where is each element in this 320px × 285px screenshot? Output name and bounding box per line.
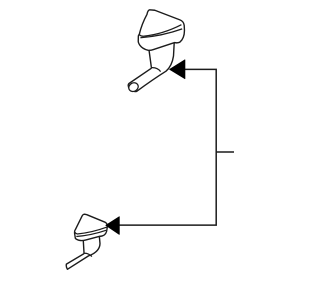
wire: bracket from top arrow, down right side, to bottom arrow: [119, 69, 216, 225]
part 2 cap face bottom edge: [75, 227, 107, 234]
part 2 tube bend seam: [84, 253, 92, 256]
part 1 cap face bottom edge: [140, 25, 182, 37]
part 2 (bottom nozzle) neck and bent tube: [66, 236, 100, 269]
part 2 cap rim bevel line: [76, 230, 106, 236]
part 1 tube bend seam: [152, 68, 161, 72]
part 1 cap rim bevel line: [140, 29, 182, 38]
part 1 tube end opening: [127, 81, 140, 93]
part 1 (top nozzle) neck and bent tube: [128, 41, 174, 92]
part 1 cap (triangular knob): [138, 10, 184, 50]
arrow to part 1: [170, 60, 185, 79]
wire: middle tick on bracket: [216, 151, 234, 153]
part 2 cap (triangular knob): [75, 214, 108, 240]
arrow to part 2: [106, 217, 120, 235]
